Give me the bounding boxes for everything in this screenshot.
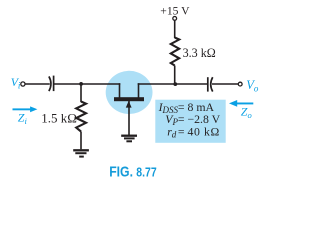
svg-text:8.77: 8.77 (136, 166, 156, 180)
svg-text:Zo: Zo (241, 104, 252, 120)
svg-text:Vo: Vo (246, 78, 259, 94)
svg-text:+15 V: +15 V (160, 4, 190, 17)
svg-text:FIG.: FIG. (109, 165, 133, 181)
svg-text:Zi: Zi (18, 111, 28, 127)
svg-text:= 40 kΩ: = 40 kΩ (178, 124, 220, 138)
svg-text:1.5 kΩ: 1.5 kΩ (41, 111, 77, 126)
svg-text:3.3 kΩ: 3.3 kΩ (183, 46, 216, 60)
svg-text:Vi: Vi (11, 75, 21, 90)
